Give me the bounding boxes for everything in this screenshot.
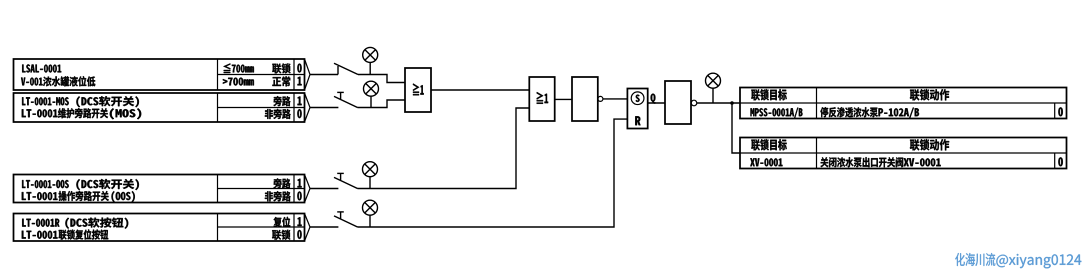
input box B3: LT-0001-OOS 操作旁路开关 <box>14 175 311 203</box>
lamp L5 on interlock output <box>706 73 721 103</box>
wire from box B4 to contact K4 <box>310 226 338 228</box>
action box A1: stop pumps MPSS-0001A/B <box>740 88 1067 119</box>
NOT gate N2 (inverter) <box>665 81 697 124</box>
contact K1 (LSAL-0001 trip contact) <box>334 63 358 74</box>
wire OR gate G1 output to OR gate G2 input 1 <box>431 89 529 91</box>
lamp L4 on reset input <box>363 200 378 227</box>
lamp L2 on MOS bypass input <box>364 81 379 107</box>
contact K4 (reset button contact) <box>334 212 358 227</box>
wire from box B2 to contact K2 <box>310 107 338 109</box>
wire flip-flop U1 Q output to NOT gate N2 <box>648 102 665 104</box>
lamp L3 on OOS bypass input <box>363 162 378 189</box>
wire from box B3 to contact K3 <box>310 188 338 190</box>
wire contact K1 to OR gate G1 input 1 <box>358 75 405 83</box>
wire from box B1 to contact K1 <box>310 74 338 76</box>
contact K2 (MOS bypass contact) <box>334 92 358 107</box>
flip-flop U1 (set-dominant SR latch) <box>627 89 647 129</box>
action box A2: close valve XV-0001 <box>740 138 1067 169</box>
input box B1: LSAL-0001 / V-001浓水罐液位低 <box>14 59 311 90</box>
NOT gate N1 (inverter) <box>572 77 603 121</box>
input box B4: LT-0001R 联锁复位按钮 <box>14 214 311 242</box>
wire node J1 down to action box A2 <box>732 103 740 153</box>
wire contact K3 to OR gate G2 input 2 <box>358 108 530 189</box>
watermark 化海川流@xiyang0124 <box>955 253 1081 268</box>
node J1 (output branch junction) <box>730 101 734 105</box>
OR gate G1 (>=1) <box>405 68 431 112</box>
label Q (flip-flop output) <box>651 94 656 104</box>
input box B2: LT-0001-MOS 维护旁路开关 <box>14 93 311 122</box>
wire OR gate G2 output to NOT gate N1 <box>555 98 572 100</box>
wire contact K4 to flip-flop U1 R input <box>358 119 628 227</box>
wire NOT gate N1 to flip-flop U1 S input <box>603 98 628 100</box>
wire NOT gate N2 output to action box A1 <box>697 102 740 104</box>
lamp L1 on LSAL-0001 input <box>363 47 378 74</box>
wire contact K2 to OR gate G1 input 2 <box>358 100 406 108</box>
contact K3 (OOS bypass contact) <box>334 173 358 188</box>
OR gate G2 (>=1) <box>529 77 554 121</box>
